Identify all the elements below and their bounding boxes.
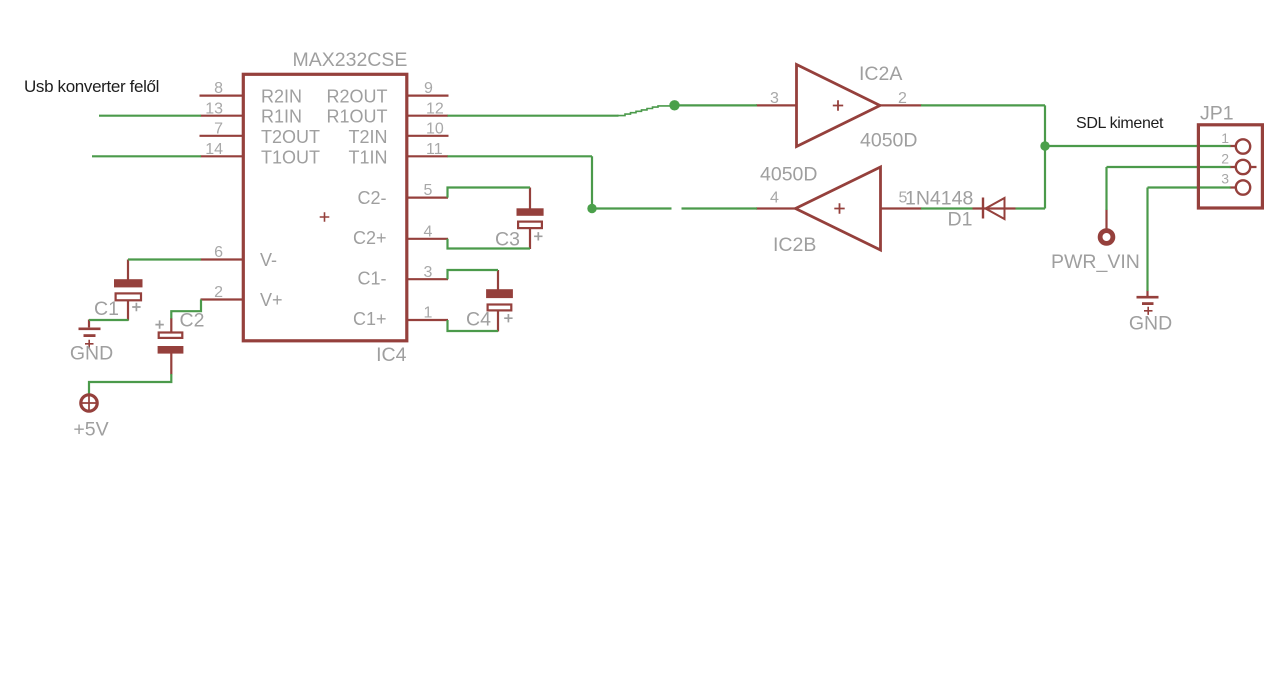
svg-text:3: 3 [424, 264, 433, 281]
svg-text:C1: C1 [94, 298, 119, 320]
svg-text:11: 11 [426, 141, 443, 158]
svg-text:3: 3 [770, 90, 779, 107]
svg-text:4050D: 4050D [860, 130, 917, 152]
svg-text:IC2A: IC2A [859, 63, 902, 85]
svg-text:GND: GND [1129, 313, 1172, 335]
svg-text:8: 8 [214, 80, 223, 97]
svg-text:10: 10 [426, 120, 444, 137]
svg-text:7: 7 [214, 120, 223, 137]
svg-text:C4: C4 [466, 309, 491, 331]
svg-text:C2+: C2+ [353, 228, 387, 248]
svg-text:JP1: JP1 [1200, 103, 1234, 125]
svg-text:R2IN: R2IN [261, 87, 302, 107]
svg-text:2: 2 [1221, 151, 1229, 167]
svg-text:SDL kimenet: SDL kimenet [1076, 115, 1164, 132]
svg-text:Usb konverter felől: Usb konverter felől [24, 77, 159, 96]
svg-text:5: 5 [424, 182, 433, 199]
svg-text:IC2B: IC2B [773, 234, 816, 256]
svg-text:GND: GND [70, 343, 113, 365]
svg-text:3: 3 [1221, 171, 1229, 187]
svg-text:C2: C2 [180, 310, 205, 332]
svg-text:T2OUT: T2OUT [261, 127, 320, 147]
svg-text:2: 2 [214, 284, 223, 301]
svg-text:T1IN: T1IN [348, 147, 387, 167]
svg-text:C1+: C1+ [353, 309, 387, 329]
svg-text:1N4148: 1N4148 [905, 188, 973, 210]
svg-text:V+: V+ [260, 290, 283, 310]
svg-text:6: 6 [214, 244, 223, 261]
svg-text:R1OUT: R1OUT [326, 107, 387, 127]
svg-text:4050D: 4050D [760, 164, 817, 186]
svg-text:R2OUT: R2OUT [326, 87, 387, 107]
svg-text:1: 1 [424, 305, 433, 322]
svg-text:D1: D1 [948, 209, 973, 231]
svg-text:PWR_VIN: PWR_VIN [1051, 251, 1140, 273]
svg-text:1: 1 [1221, 130, 1229, 146]
svg-text:MAX232CSE: MAX232CSE [293, 49, 408, 71]
svg-text:4: 4 [424, 223, 433, 240]
svg-text:C2-: C2- [357, 188, 386, 208]
svg-text:C3: C3 [495, 229, 520, 251]
svg-text:12: 12 [426, 100, 444, 117]
svg-text:T2IN: T2IN [348, 127, 387, 147]
svg-text:R1IN: R1IN [261, 107, 302, 127]
svg-text:4: 4 [770, 190, 779, 207]
svg-text:+5V: +5V [73, 419, 108, 441]
svg-text:C1-: C1- [357, 269, 386, 289]
svg-text:2: 2 [898, 90, 907, 107]
svg-text:V-: V- [260, 250, 277, 270]
svg-text:9: 9 [424, 80, 433, 97]
svg-text:IC4: IC4 [376, 344, 407, 366]
svg-text:13: 13 [205, 100, 223, 117]
svg-text:14: 14 [205, 141, 223, 158]
svg-text:T1OUT: T1OUT [261, 147, 320, 167]
